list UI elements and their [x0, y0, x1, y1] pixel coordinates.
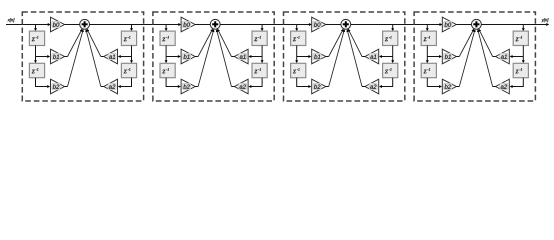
- delay z^-1 D2 (input line, section 1): [29, 63, 44, 77]
- summing node (section 1): [80, 19, 90, 29]
- summing node (section 4): [472, 19, 482, 29]
- node x[n] input label: [7, 18, 14, 22]
- delay z^-1 D1 (input line, section 4): [421, 31, 436, 45]
- summing node (section 2): [210, 19, 220, 29]
- wire b2 apex stub (section 3): [326, 86, 329, 88]
- wire D3 to D4 with tap to a1 (section 2): [248, 46, 263, 64]
- wire section 4 output to y[n]: [481, 23, 549, 26]
- wire output tap down to delay D3 (section 2): [261, 25, 264, 32]
- wire input tap down to delay D1 (section 3): [295, 25, 298, 32]
- wire b1 apex stub (section 4): [456, 56, 459, 58]
- amplifier b1 (section 2): [181, 49, 195, 64]
- wire input tap down to delay D1 (section 4): [426, 25, 429, 32]
- wire a2 apex stub (section 1): [101, 86, 104, 88]
- delay z^-1 D1 (input line, section 2): [160, 31, 175, 45]
- wire b0 to summing node (section 3): [326, 24, 341, 26]
- wire b1 to summing node (section 4): [459, 29, 474, 57]
- delay z^-1 D3 (feedback line, section 1): [121, 31, 136, 45]
- amplifier b1 (section 1): [51, 49, 65, 64]
- wire output tap down to delay D3 (section 1): [130, 25, 133, 32]
- delay z^-1 D2 (input line, section 4): [421, 63, 436, 77]
- delay z^-1 D4 (feedback line, section 3): [383, 63, 398, 77]
- amplifier a2 (section 3): [365, 79, 379, 94]
- wire b1 to summing node (section 1): [68, 29, 83, 57]
- wire D2 to b2 (section 4): [427, 78, 442, 88]
- delay z^-1 D2 (input line, section 2): [160, 63, 175, 77]
- filter section 2 dashed box: [153, 12, 274, 101]
- amplifier a2 (section 2): [234, 79, 248, 94]
- wire b2 to summing node (section 3): [329, 29, 345, 86]
- delay z^-1 D3 (feedback line, section 3): [383, 31, 398, 45]
- amplifier a1 (section 2): [234, 49, 248, 64]
- delay z^-1 D4 (feedback line, section 1): [121, 63, 136, 77]
- wire b1 apex stub (section 2): [195, 56, 198, 58]
- amplifier b0 (section 2): [181, 17, 195, 32]
- wire D3 to D4 with tap to a1 (section 4): [510, 46, 525, 64]
- wire output tap down to delay D3 (section 4): [522, 25, 525, 32]
- wire b0 to summing node (section 4): [456, 24, 471, 26]
- amplifier b0 (section 1): [51, 17, 65, 32]
- delay z^-1 D3 (feedback line, section 2): [252, 31, 267, 45]
- wire a1 to summing node (section 4): [479, 29, 493, 57]
- wire b2 to summing node (section 4): [459, 29, 475, 86]
- wire b0 to summing node (section 2): [195, 24, 210, 26]
- wire a2 to summing node (section 1): [85, 29, 101, 86]
- wire b2 apex stub (section 1): [65, 86, 68, 88]
- wire b1 apex stub (section 1): [65, 56, 68, 58]
- wire D2 to b2 (section 2): [166, 78, 181, 88]
- amplifier b1 (section 4): [442, 49, 456, 64]
- wire D1 to D2 with tap to b1 (section 1): [34, 46, 50, 64]
- wire b1 to summing node (section 2): [198, 29, 213, 57]
- amplifier b2 (section 2): [181, 79, 195, 94]
- wire D4 to a2 (section 4): [510, 78, 524, 88]
- wire D3 to D4 with tap to a1 (section 3): [379, 46, 394, 64]
- wire D4 to a2 (section 1): [118, 78, 132, 88]
- filter section 1 dashed box: [22, 12, 143, 101]
- amplifier b0 (section 3): [312, 17, 326, 32]
- amplifier a2 (section 4): [496, 79, 510, 94]
- wire D2 to b2 (section 1): [36, 78, 51, 88]
- wire D2 to b2 (section 3): [297, 78, 312, 88]
- amplifier a1 (section 1): [104, 49, 118, 64]
- wire section 3 output to section 4 input: [351, 23, 443, 26]
- filter section 3 dashed box: [284, 12, 405, 101]
- delay z^-1 D1 (input line, section 1): [29, 31, 44, 45]
- wire output tap down to delay D3 (section 3): [391, 25, 394, 32]
- wire a2 to summing node (section 3): [346, 29, 362, 86]
- wire b2 to summing node (section 1): [68, 29, 84, 86]
- wire input x[n] to section 1: [6, 23, 51, 26]
- wire section 2 output to section 3 input: [220, 23, 312, 26]
- amplifier a2 (section 1): [104, 79, 118, 94]
- wire b2 apex stub (section 2): [195, 86, 198, 88]
- wire D1 to D2 with tap to b1 (section 3): [295, 46, 311, 64]
- amplifier b2 (section 1): [51, 79, 65, 94]
- wire b1 to summing node (section 3): [329, 29, 344, 57]
- wire a1 apex stub (section 1): [101, 56, 104, 58]
- wire b0 to summing node (section 1): [65, 24, 80, 26]
- wire a1 to summing node (section 2): [217, 29, 231, 57]
- filter section 4 dashed box: [414, 12, 535, 101]
- wire b2 to summing node (section 2): [198, 29, 214, 86]
- wire D3 to D4 with tap to a1 (section 1): [118, 46, 133, 64]
- amplifier b0 (section 4): [442, 17, 456, 32]
- wire a2 apex stub (section 4): [493, 86, 496, 88]
- wire a1 to summing node (section 3): [348, 29, 362, 57]
- wire a2 apex stub (section 3): [362, 86, 365, 88]
- node y[n] output label: [541, 18, 548, 22]
- amplifier b2 (section 3): [312, 79, 326, 94]
- amplifier a1 (section 4): [496, 49, 510, 64]
- wire D1 to D2 with tap to b1 (section 4): [426, 46, 442, 64]
- summing node (section 3): [341, 19, 351, 29]
- wire a2 apex stub (section 2): [231, 86, 234, 88]
- delay z^-1 D3 (feedback line, section 4): [513, 31, 528, 45]
- wire a2 to summing node (section 2): [216, 29, 232, 86]
- wire a1 to summing node (section 1): [87, 29, 101, 57]
- amplifier b1 (section 3): [312, 49, 326, 64]
- delay z^-1 D1 (input line, section 3): [291, 31, 306, 45]
- wire D1 to D2 with tap to b1 (section 2): [165, 46, 181, 64]
- wire section 1 output to section 2 input: [90, 23, 182, 26]
- wire a2 to summing node (section 4): [477, 29, 493, 86]
- wire D4 to a2 (section 2): [248, 78, 262, 88]
- wire a1 apex stub (section 2): [231, 56, 234, 58]
- wire input tap down to delay D1 (section 1): [34, 25, 37, 32]
- wire input tap down to delay D1 (section 2): [165, 25, 168, 32]
- amplifier a1 (section 3): [365, 49, 379, 64]
- delay z^-1 D4 (feedback line, section 4): [513, 63, 528, 77]
- wire a1 apex stub (section 3): [362, 56, 365, 58]
- delay z^-1 D2 (input line, section 3): [291, 63, 306, 77]
- wire b1 apex stub (section 3): [326, 56, 329, 58]
- delay z^-1 D4 (feedback line, section 2): [252, 63, 267, 77]
- wire b2 apex stub (section 4): [456, 86, 459, 88]
- wire D4 to a2 (section 3): [379, 78, 393, 88]
- wire a1 apex stub (section 4): [493, 56, 496, 58]
- amplifier b2 (section 4): [442, 79, 456, 94]
